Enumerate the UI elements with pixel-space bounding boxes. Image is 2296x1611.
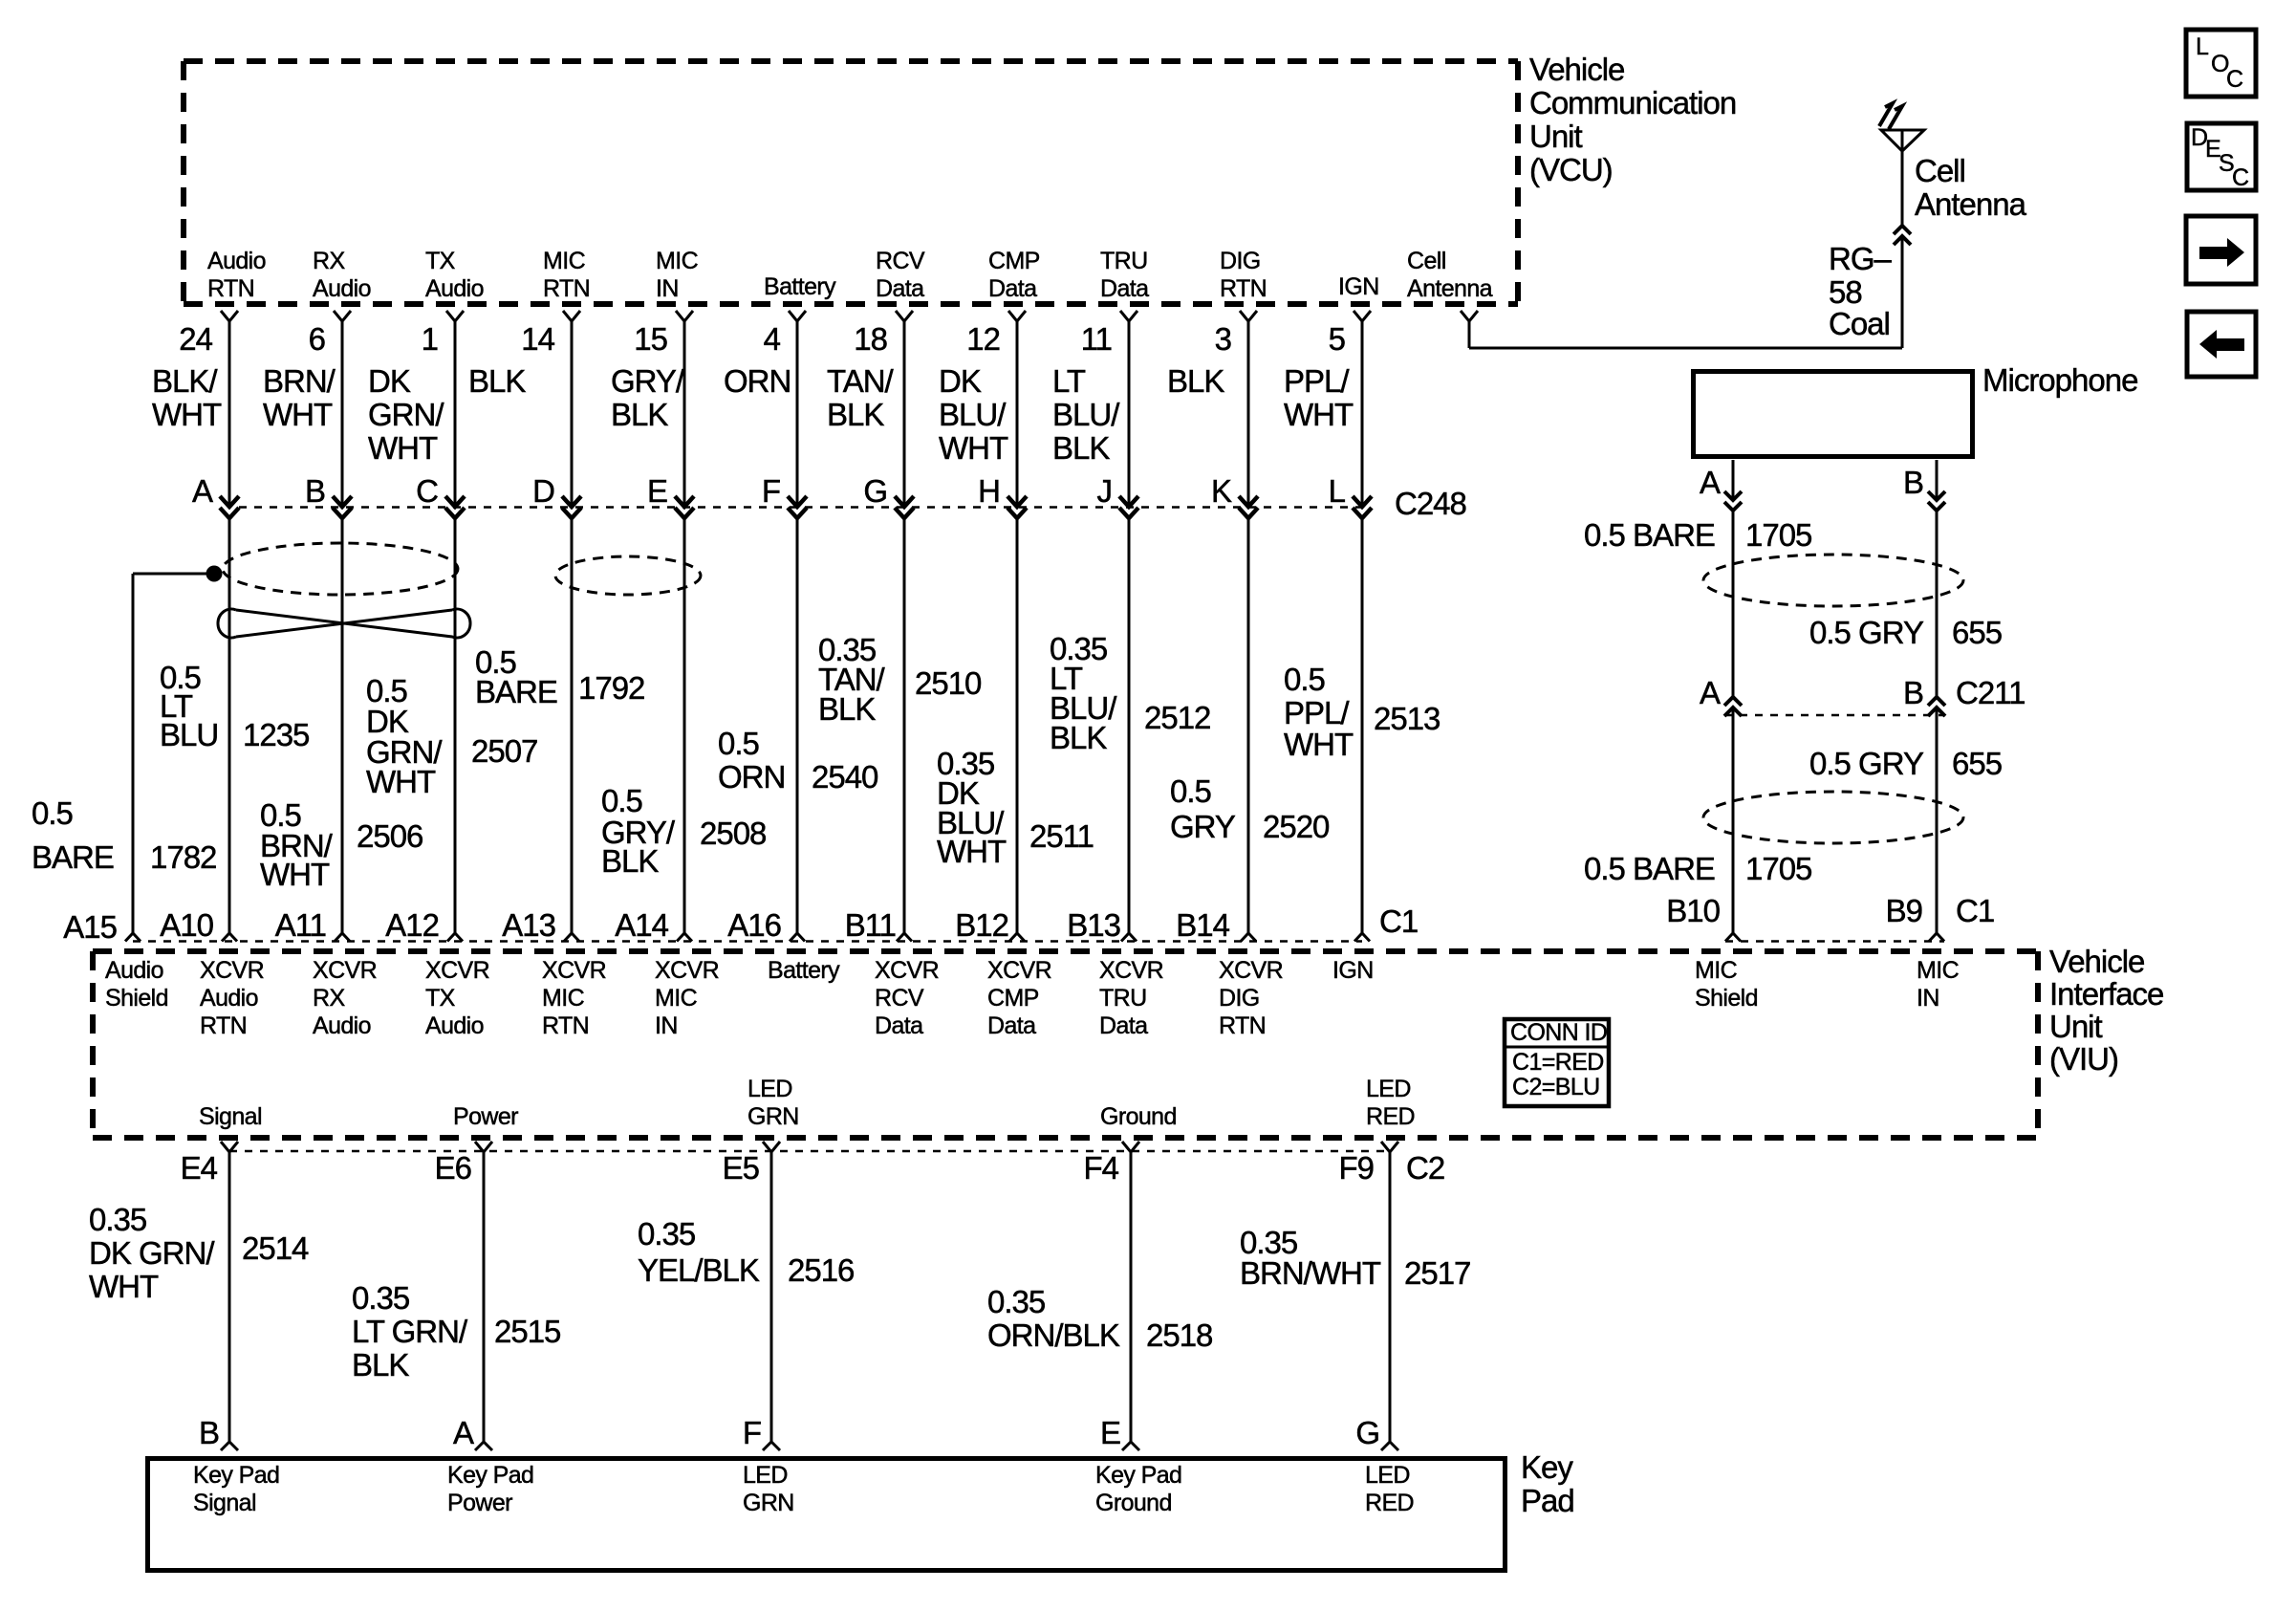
wire F9 to key pad G (1389, 1152, 1392, 1442)
svg-text:Audio: Audio (313, 1012, 371, 1039)
svg-text:C: C (2226, 66, 2243, 93)
VCU pin name CMP Data (988, 248, 1040, 302)
svg-text:E: E (647, 473, 667, 509)
pin number 3 (1215, 321, 1231, 357)
key pad pin A connector tent (475, 1442, 492, 1450)
svg-text:GRN: GRN (743, 1490, 794, 1516)
wire value label 0.5 BARE (lower) (1584, 851, 1715, 886)
svg-text:Vehicle: Vehicle (1529, 52, 1624, 87)
svg-text:J: J (1097, 473, 1113, 509)
wire colour label BLK (468, 363, 526, 399)
svg-text:BLK: BLK (1167, 363, 1224, 399)
key pad box (148, 1459, 1505, 1571)
svg-text:MIC: MIC (655, 985, 698, 1012)
key pad title (1521, 1449, 1574, 1518)
VCU pin 11 connector tent (1120, 311, 1137, 321)
shield ellipse around audio pair (223, 543, 458, 595)
VIU pin name XCVR TRU Data (1099, 957, 1163, 1039)
svg-text:MIC: MIC (1695, 957, 1738, 984)
VIU pin name Battery (768, 957, 840, 984)
wire colour label LT/BLU//BLK (1052, 363, 1120, 466)
circuit number 1705 (lower) (1745, 851, 1811, 886)
svg-text:TRU: TRU (1100, 248, 1148, 274)
svg-text:BLU/: BLU/ (1052, 397, 1120, 432)
svg-text:BLK: BLK (468, 363, 526, 399)
circuit number 655 (upper) (1952, 615, 2002, 650)
svg-text:XCVR: XCVR (1099, 957, 1163, 984)
wire segment D upper (BLK) (571, 321, 574, 505)
svg-text:Unit: Unit (1529, 119, 1583, 154)
VIU pin name XCVR Audio RTN (200, 957, 264, 1039)
svg-text:BLK: BLK (352, 1347, 409, 1382)
svg-text:C2=BLU: C2=BLU (1512, 1074, 1600, 1100)
pin number 12 (966, 321, 1000, 357)
VIU bottom pin F4 connector tent (1122, 1142, 1139, 1152)
svg-text:2507: 2507 (471, 733, 537, 769)
VIU pin letter B9 (1886, 893, 1922, 928)
svg-text:F: F (762, 473, 780, 509)
key pad pin name LED RED (1365, 1462, 1414, 1516)
svg-text:WHT: WHT (260, 857, 330, 892)
VIU pin B9 connector tent (1929, 933, 1944, 942)
wire segment B upper (BRN//WHT) (341, 321, 344, 505)
svg-text:E: E (1100, 1415, 1120, 1450)
VIU pin letter C1 (1379, 903, 1418, 939)
svg-text:BRN/WHT: BRN/WHT (1240, 1255, 1381, 1291)
svg-text:WHT: WHT (263, 397, 333, 432)
connector C248 cavity B label (305, 473, 325, 509)
svg-text:BLK: BLK (818, 691, 876, 727)
circuit number 2513 (1374, 701, 1440, 736)
svg-text:18: 18 (854, 321, 887, 357)
svg-text:1: 1 (422, 321, 438, 357)
svg-text:A: A (453, 1415, 474, 1450)
wire value label 0.35 DK BLU/ WHT (937, 746, 1007, 869)
circuit number 2515 (494, 1314, 560, 1349)
svg-text:A16: A16 (727, 907, 781, 943)
wire value label 0.5 GRY (lower) (1809, 746, 1924, 781)
circuit number 2516 (788, 1252, 854, 1288)
svg-text:655: 655 (1952, 615, 2002, 650)
VIU pin name XCVR CMP Data (987, 957, 1051, 1039)
svg-text:RCV: RCV (875, 985, 924, 1012)
VCU pin name TX Audio (425, 248, 484, 302)
wire segment F lower (to VIU A16) (796, 518, 799, 933)
svg-text:Key Pad: Key Pad (193, 1462, 279, 1489)
VIU pin name Audio Shield (105, 957, 168, 1012)
VCU pin 14 connector tent (563, 311, 580, 321)
circuit number 2514 (242, 1230, 309, 1266)
svg-text:WHT: WHT (1284, 397, 1354, 432)
svg-text:0.35: 0.35 (638, 1216, 695, 1252)
key pad pin letter F (743, 1415, 761, 1450)
svg-text:0.5 BARE: 0.5 BARE (1584, 517, 1715, 553)
svg-text:RX: RX (313, 985, 345, 1012)
VIU pin A11 connector tent (335, 933, 350, 942)
wire segment L lower (to VIU C1) (1361, 518, 1364, 933)
VCU pin name RX Audio (313, 248, 371, 302)
svg-text:BLK/: BLK/ (152, 363, 218, 399)
svg-text:2516: 2516 (788, 1252, 854, 1288)
svg-text:IN: IN (655, 1012, 678, 1039)
svg-text:C211: C211 (1956, 675, 2025, 710)
svg-text:2518: 2518 (1146, 1317, 1212, 1353)
wire segment D lower (to VIU A13) (571, 518, 574, 933)
svg-text:C1: C1 (1379, 903, 1418, 939)
svg-text:Battery: Battery (768, 957, 840, 984)
mic wire A segment to C211 (1732, 512, 1735, 697)
wire segment H upper (DK/BLU//WHT) (1016, 321, 1019, 505)
VCU pin name RCV Data (876, 248, 925, 302)
wire: antenna feed lower segment (1901, 236, 1904, 348)
connector C248 arrows at wire D (562, 496, 581, 518)
VIU bottom pin name LED RED (1366, 1076, 1415, 1130)
wire value label 0.5 BARE (475, 644, 557, 709)
svg-text:A: A (1700, 465, 1721, 500)
svg-text:XCVR: XCVR (313, 957, 377, 984)
wire value label 0.35 LT BLU/ BLK (1050, 631, 1117, 755)
svg-text:IGN: IGN (1332, 957, 1374, 984)
VIU bottom pin name Signal (199, 1103, 262, 1130)
VIU bottom pin name Ground (1100, 1103, 1177, 1130)
svg-text:YEL/BLK: YEL/BLK (638, 1252, 760, 1288)
svg-text:1705: 1705 (1745, 851, 1811, 886)
svg-text:WHT: WHT (939, 430, 1008, 466)
pin number 5 (1329, 321, 1345, 357)
connector C248 label (1395, 486, 1466, 521)
svg-text:LED: LED (743, 1462, 788, 1489)
key pad pin letter B (199, 1415, 219, 1450)
svg-text:RTN: RTN (1219, 1012, 1266, 1039)
connector C248 arrows at wire A (220, 496, 239, 518)
svg-text:Battery: Battery (764, 273, 836, 300)
svg-text:ORN: ORN (724, 363, 791, 399)
wire value label 0.35 DK GRN/ WHT (89, 1202, 215, 1304)
wire segment H lower (to VIU B12) (1016, 518, 1019, 933)
svg-text:Antenna: Antenna (1407, 275, 1493, 302)
circuit number 1235 (243, 717, 309, 752)
VCU pin name Battery (764, 273, 836, 300)
svg-text:Data: Data (875, 1012, 923, 1039)
VCU pin 4 connector tent (789, 311, 806, 321)
twisted pair symbol (wires B-C) (218, 609, 470, 638)
connector C248 arrows at wire K (1239, 496, 1258, 518)
svg-text:Interface: Interface (2049, 976, 2163, 1012)
svg-text:Key Pad: Key Pad (1095, 1462, 1181, 1489)
wire segment C upper (DK/GRN//WHT) (454, 321, 457, 505)
mic wire segment B10 to VIU (1732, 708, 1735, 933)
wire value label 0.35 BRN/WHT (1240, 1225, 1381, 1291)
VIU pin letter F9 (1338, 1150, 1374, 1186)
svg-text:DK: DK (939, 363, 982, 399)
CONN ID legend box (1505, 1019, 1609, 1106)
connector C248 arrows at wire C (445, 496, 465, 518)
svg-text:B: B (305, 473, 325, 509)
connector C248 cavity H label (978, 473, 1000, 509)
pin number 11 (1081, 321, 1112, 357)
svg-text:CONN ID: CONN ID (1510, 1019, 1607, 1046)
VCU pin 3 connector tent (1240, 311, 1257, 321)
svg-text:LT GRN/: LT GRN/ (352, 1314, 468, 1349)
svg-text:4: 4 (764, 321, 781, 357)
svg-text:BLK: BLK (611, 397, 668, 432)
circuit number 1705 (upper) (1745, 517, 1811, 553)
svg-text:RX: RX (313, 248, 345, 274)
svg-text:DK GRN/: DK GRN/ (89, 1235, 215, 1271)
key pad pin name Key Pad Power (447, 1462, 533, 1516)
wire value label 0.5 BARE (upper) (1584, 517, 1715, 553)
svg-text:B10: B10 (1666, 893, 1720, 928)
VIU pin letter B12 (955, 907, 1008, 943)
key pad pin letter A (453, 1415, 474, 1450)
key pad pin F connector tent (763, 1442, 780, 1450)
svg-text:Vehicle: Vehicle (2049, 944, 2144, 979)
svg-text:BRN/: BRN/ (263, 363, 336, 399)
svg-text:RTN: RTN (207, 275, 254, 302)
wire colour label BLK (1167, 363, 1224, 399)
svg-text:A: A (192, 473, 213, 509)
VIU pin A16 connector tent (790, 933, 805, 942)
svg-text:WHT: WHT (1284, 727, 1354, 762)
connector C2 dashed line (229, 1150, 1390, 1153)
VCU box (Vehicle Communication Unit, dashed) (184, 61, 1518, 304)
svg-text:Shield: Shield (1695, 985, 1758, 1012)
wire value label 0.5 LT BLU (160, 660, 218, 752)
connector C248 cavity L label (1329, 473, 1346, 509)
VCU pin name DIG RTN (1220, 248, 1267, 302)
connector C211 label (1956, 675, 2025, 710)
svg-text:XCVR: XCVR (875, 957, 939, 984)
wire: coax horizontal run from VCU Cell Antenna pin (1469, 347, 1902, 350)
svg-text:IN: IN (656, 275, 679, 302)
svg-text:Audio: Audio (313, 275, 371, 302)
mic wire B upper stub (1936, 460, 1939, 499)
VIU pin letter A12 (385, 907, 439, 943)
cell antenna name (1915, 153, 2027, 222)
svg-text:Data: Data (1099, 1012, 1148, 1039)
connector C211 cavity A label (1700, 675, 1721, 710)
circuit number 2518 (1146, 1317, 1212, 1353)
key pad pin G connector tent (1381, 1442, 1398, 1450)
VIU pin name IGN (1332, 957, 1374, 984)
wire colour label GRY//BLK (611, 363, 685, 432)
pin number 1 (422, 321, 438, 357)
VIU pin name XCVR RCV Data (875, 957, 939, 1039)
svg-text:1705: 1705 (1745, 517, 1811, 553)
VIU pin A14 connector tent (677, 933, 692, 942)
wire segment E upper (GRY//BLK) (683, 321, 686, 505)
svg-text:ORN/BLK: ORN/BLK (987, 1317, 1120, 1353)
wire value label 0.35 ORN/BLK (987, 1284, 1120, 1353)
connector C248 cavity C label (416, 473, 438, 509)
VIU pin B11 connector tent (897, 933, 912, 942)
svg-text:RED: RED (1366, 1103, 1415, 1130)
svg-text:TX: TX (425, 248, 456, 274)
connector C248 arrows at wire B (333, 496, 352, 518)
wire segment F upper (ORN) (796, 321, 799, 505)
pin number 15 (634, 321, 667, 357)
svg-text:L: L (1329, 473, 1346, 509)
VIU pin name XCVR TX Audio (425, 957, 489, 1039)
key pad pin B connector tent (221, 1442, 238, 1450)
connector C248 dashed line (239, 506, 1362, 509)
connector C211 dashed line (1724, 714, 1945, 717)
VCU pin name TRU Data (1100, 248, 1149, 302)
mic shield ellipse upper (1703, 555, 1963, 606)
svg-text:Signal: Signal (199, 1103, 262, 1130)
svg-text:BLK: BLK (1052, 430, 1110, 466)
VIU pin letter A10 (160, 907, 213, 943)
connector C1 label (mic side) (1956, 893, 1994, 928)
right-arrow nav box (2186, 216, 2256, 284)
svg-text:3: 3 (1215, 321, 1231, 357)
pin number 14 (521, 321, 554, 357)
svg-text:A11: A11 (275, 907, 326, 943)
VIU pin letter F4 (1083, 1150, 1118, 1186)
inline connector below microphone (wire B) (1928, 491, 1945, 511)
VCU pin name Audio RTN (207, 248, 266, 302)
svg-text:Ground: Ground (1100, 1103, 1177, 1130)
VIU pin letter A16 (727, 907, 781, 943)
wire colour label DK/BLU//WHT (939, 363, 1008, 466)
circuit number 2517 (1404, 1255, 1470, 1291)
pin number 4 (764, 321, 781, 357)
wire value label 0.35 TAN/ BLK (818, 632, 886, 727)
VIU pin A15 connector tent (125, 933, 141, 942)
inline connector below microphone (wire A) (1724, 491, 1742, 511)
svg-text:BLK: BLK (827, 397, 884, 432)
connector C248 arrows at wire L (1353, 496, 1372, 518)
VIU pin name XCVR RX Audio (313, 957, 377, 1039)
connector C248 cavity D label (532, 473, 554, 509)
svg-text:(VIU): (VIU) (2049, 1041, 2118, 1077)
svg-text:TRU: TRU (1099, 985, 1147, 1012)
svg-text:B11: B11 (845, 907, 896, 943)
connector C211 arrows (wire A) (1724, 697, 1742, 716)
VIU pin B13 connector tent (1121, 933, 1137, 942)
svg-text:LT: LT (1052, 363, 1086, 399)
svg-text:Audio: Audio (207, 248, 266, 274)
svg-text:XCVR: XCVR (655, 957, 719, 984)
svg-text:LED: LED (1365, 1462, 1410, 1489)
circuit number 2511 (1029, 818, 1094, 854)
svg-text:ORN: ORN (718, 759, 785, 795)
circuit number 1792 (578, 670, 644, 706)
svg-text:5: 5 (1329, 321, 1345, 357)
mic pin letter A (1700, 465, 1721, 500)
svg-text:2513: 2513 (1374, 701, 1440, 736)
connector C248 arrows at wire G (895, 496, 914, 518)
VIU pin C1 connector tent (1354, 933, 1370, 942)
VCU pin Cell Antenna (connector tent) (1461, 311, 1478, 321)
mic wire A upper stub (1732, 460, 1735, 499)
VCU pin name MIC RTN (543, 248, 590, 302)
key pad pin name Key Pad Signal (193, 1462, 279, 1516)
svg-text:XCVR: XCVR (1219, 957, 1283, 984)
wire: antenna feed upper segment (1901, 151, 1904, 226)
VIU bottom pin E4 connector tent (221, 1142, 238, 1152)
svg-text:6: 6 (309, 321, 325, 357)
wire segment L upper (PPL//WHT) (1361, 321, 1364, 505)
svg-text:WHT: WHT (937, 834, 1007, 869)
svg-text:C: C (416, 473, 438, 509)
VIU pin letter B14 (1176, 907, 1229, 943)
VIU pin letter B13 (1067, 907, 1120, 943)
svg-text:RTN: RTN (543, 275, 590, 302)
svg-text:IN: IN (1917, 985, 1939, 1012)
svg-text:Data: Data (988, 275, 1037, 302)
svg-text:RTN: RTN (200, 1012, 247, 1039)
VIU pin letter A14 (615, 907, 668, 943)
svg-text:WHT: WHT (366, 764, 436, 799)
VIU pin letter B10 (1666, 893, 1720, 928)
VIU pin name MIC Shield (1695, 957, 1758, 1012)
svg-text:Data: Data (876, 275, 924, 302)
key pad pin E connector tent (1122, 1442, 1139, 1450)
wire segment G upper (TAN//BLK) (903, 321, 906, 505)
wire segment B lower (to VIU A11) (341, 518, 344, 933)
svg-text:BARE: BARE (32, 839, 114, 875)
svg-text:BLU/: BLU/ (939, 397, 1007, 432)
wire colour label TAN//BLK (827, 363, 895, 432)
svg-text:B14: B14 (1176, 907, 1229, 943)
VCU pin name IGN (1338, 273, 1379, 300)
circuit number 2507 (471, 733, 537, 769)
VIU title (2049, 944, 2163, 1077)
wire segment K lower (to VIU B14) (1247, 518, 1250, 933)
svg-text:IGN: IGN (1338, 273, 1379, 300)
svg-text:GRY/: GRY/ (611, 363, 685, 399)
circuit number 2508 (700, 816, 766, 851)
svg-text:Ground: Ground (1095, 1490, 1172, 1516)
pin number 6 (309, 321, 325, 357)
svg-text:Shield: Shield (105, 985, 168, 1012)
svg-text:1792: 1792 (578, 670, 644, 706)
svg-text:BLU: BLU (160, 717, 218, 752)
svg-text:BARE: BARE (475, 674, 557, 709)
svg-text:D: D (532, 473, 554, 509)
connector C248 cavity J label (1097, 473, 1113, 509)
VIU pin letter E5 (723, 1150, 759, 1186)
svg-text:B: B (1903, 465, 1923, 500)
svg-text:2514: 2514 (242, 1230, 309, 1266)
svg-text:GRN/: GRN/ (368, 397, 444, 432)
microphone box (1694, 372, 1973, 457)
connector C2 label (1406, 1150, 1444, 1186)
svg-text:G: G (863, 473, 887, 509)
wire value label 0.5 GRY (upper) (1809, 615, 1924, 650)
wire value label 0.5 GRY (1170, 773, 1236, 844)
svg-text:H: H (978, 473, 1000, 509)
svg-text:Audio: Audio (425, 1012, 484, 1039)
VIU box (Vehicle Interface Unit, dashed) (93, 951, 2038, 1138)
svg-text:0.35: 0.35 (89, 1202, 146, 1237)
connector C211 cavity B label (1903, 675, 1923, 710)
svg-text:14: 14 (521, 321, 554, 357)
svg-text:TAN/: TAN/ (827, 363, 895, 399)
VCU pin 15 connector tent (676, 311, 693, 321)
wire segment G lower (to VIU B11) (903, 518, 906, 933)
svg-text:Communication: Communication (1529, 85, 1736, 120)
svg-text:A12: A12 (385, 907, 439, 943)
svg-text:0.35: 0.35 (352, 1280, 409, 1316)
RG-58 coax value label (1829, 241, 1893, 341)
wire segment A upper (BLK//WHT) (228, 321, 231, 505)
svg-text:L: L (2196, 33, 2209, 60)
mic wire B segment to C211 (1936, 512, 1939, 697)
key pad pin letter G (1355, 1415, 1379, 1450)
connector C248 arrows at wire E (675, 496, 694, 518)
